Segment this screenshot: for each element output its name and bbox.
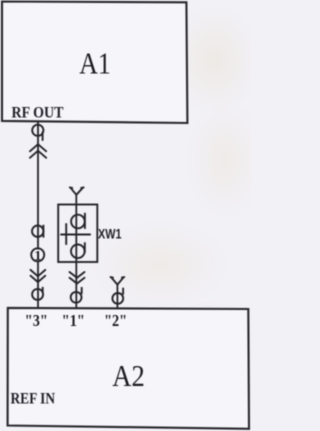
- socket tail: [81, 287, 83, 294]
- cable marker 1: [31, 248, 44, 261]
- connector set XW1: [58, 205, 97, 263]
- fork (open end): [111, 277, 125, 285]
- svg-text:1: 1: [34, 249, 41, 264]
- wire: A1 RF OUT down to A2 "3": [37, 122, 39, 309]
- connector socket at A2 "1": [71, 292, 82, 303]
- fork (open end): [70, 187, 84, 194]
- socket tail: [122, 288, 124, 295]
- lower connector bar: [84, 242, 86, 253]
- plug chevrons (down, middle): [70, 272, 85, 284]
- coax connector on cable (left): [32, 226, 43, 237]
- device A1: [2, 2, 187, 124]
- connector socket at A1 RF OUT: [32, 125, 43, 136]
- svg-text:"3": "3": [25, 311, 48, 330]
- svg-text:A2: A2: [112, 358, 145, 393]
- plug chevrons (up): [30, 144, 46, 158]
- wire: fork through XW1 down to A2 "1": [75, 195, 77, 309]
- svg-text:"1": "1": [62, 311, 85, 330]
- XW1 lower coax connector: [71, 245, 85, 259]
- device A2: [8, 308, 249, 429]
- XW1 upper coax connector: [71, 215, 85, 229]
- svg-text:"2": "2": [104, 311, 127, 330]
- upper connector bar: [84, 213, 86, 229]
- connector socket tail: [42, 132, 44, 141]
- coax connector bar: [42, 225, 44, 238]
- socket tail: [42, 287, 44, 293]
- svg-text:RF OUT: RF OUT: [12, 104, 64, 121]
- wire: fork down to A2 "2": [116, 284, 118, 308]
- svg-text:A1: A1: [79, 46, 111, 81]
- tee link: [60, 223, 91, 245]
- connector socket at A2 "3": [32, 289, 43, 300]
- connector socket at A2 "2": [112, 293, 123, 304]
- svg-text:XW1: XW1: [98, 227, 122, 242]
- plug chevrons (down, left): [31, 270, 46, 282]
- svg-text:REF IN: REF IN: [11, 390, 56, 407]
